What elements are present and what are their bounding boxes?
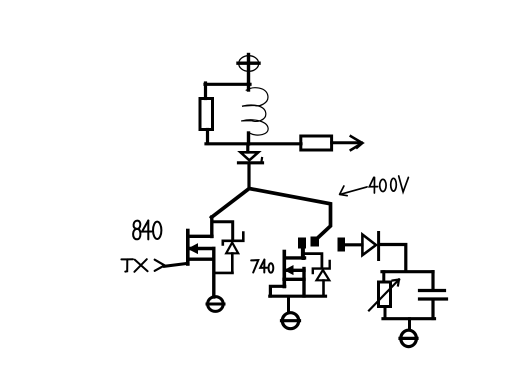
mosfet Q2 (740): [270, 247, 326, 296]
wire blob to diode D4: [345, 243, 362, 246]
label TX: [121, 259, 147, 272]
inductor L1: [242, 84, 268, 144]
diode D1: [239, 152, 263, 163]
supply symbol: [238, 55, 259, 85]
wire resistor R2 to arrow: [332, 141, 359, 144]
resistor R2: [301, 136, 332, 150]
wire below capacitor: [431, 300, 434, 319]
ground (tank): [400, 330, 417, 346]
wire left vertical to resistor: [204, 83, 207, 99]
wire bottom rail: [206, 142, 301, 145]
wire below resistor: [206, 130, 209, 144]
wire top rail: [205, 83, 250, 86]
potentiometer R3: [369, 280, 399, 311]
label 740: [251, 260, 273, 273]
connector blob J1b: [311, 237, 320, 247]
wire from rail down to diode D1: [246, 145, 249, 152]
ground (Q1 source): [207, 297, 224, 312]
wire left branch to Q1 drain: [212, 189, 250, 218]
label 400V: [340, 176, 409, 196]
connector blob J1a: [298, 238, 306, 249]
wire tank bottom rail: [383, 317, 435, 320]
ground (Q2 source): [282, 297, 300, 329]
connector blob J2: [338, 238, 346, 252]
output arrow: [351, 136, 363, 150]
TX input arrow: [155, 260, 165, 271]
resistor R1: [200, 99, 213, 130]
wire gate lead TX: [165, 263, 189, 266]
mosfet Q1 (840): [188, 217, 214, 297]
wire blob to Q2 drain: [301, 248, 304, 257]
wire diode D4 to tank: [380, 245, 406, 271]
diode D2 (body zener of Q1): [213, 222, 244, 273]
wire to potentiometer: [382, 272, 385, 282]
wire tank top rail: [382, 270, 433, 273]
diode D4: [362, 233, 378, 260]
wire below potentiometer: [384, 307, 387, 319]
wire to capacitor: [431, 272, 434, 290]
wire diode to node: [247, 164, 250, 189]
diode D3 (body zener of Q2): [305, 254, 330, 296]
wire right branch to 400V bend: [249, 189, 330, 240]
capacitor C1: [420, 291, 447, 300]
wire to ground (tank): [408, 319, 411, 330]
label 840: [133, 221, 161, 240]
